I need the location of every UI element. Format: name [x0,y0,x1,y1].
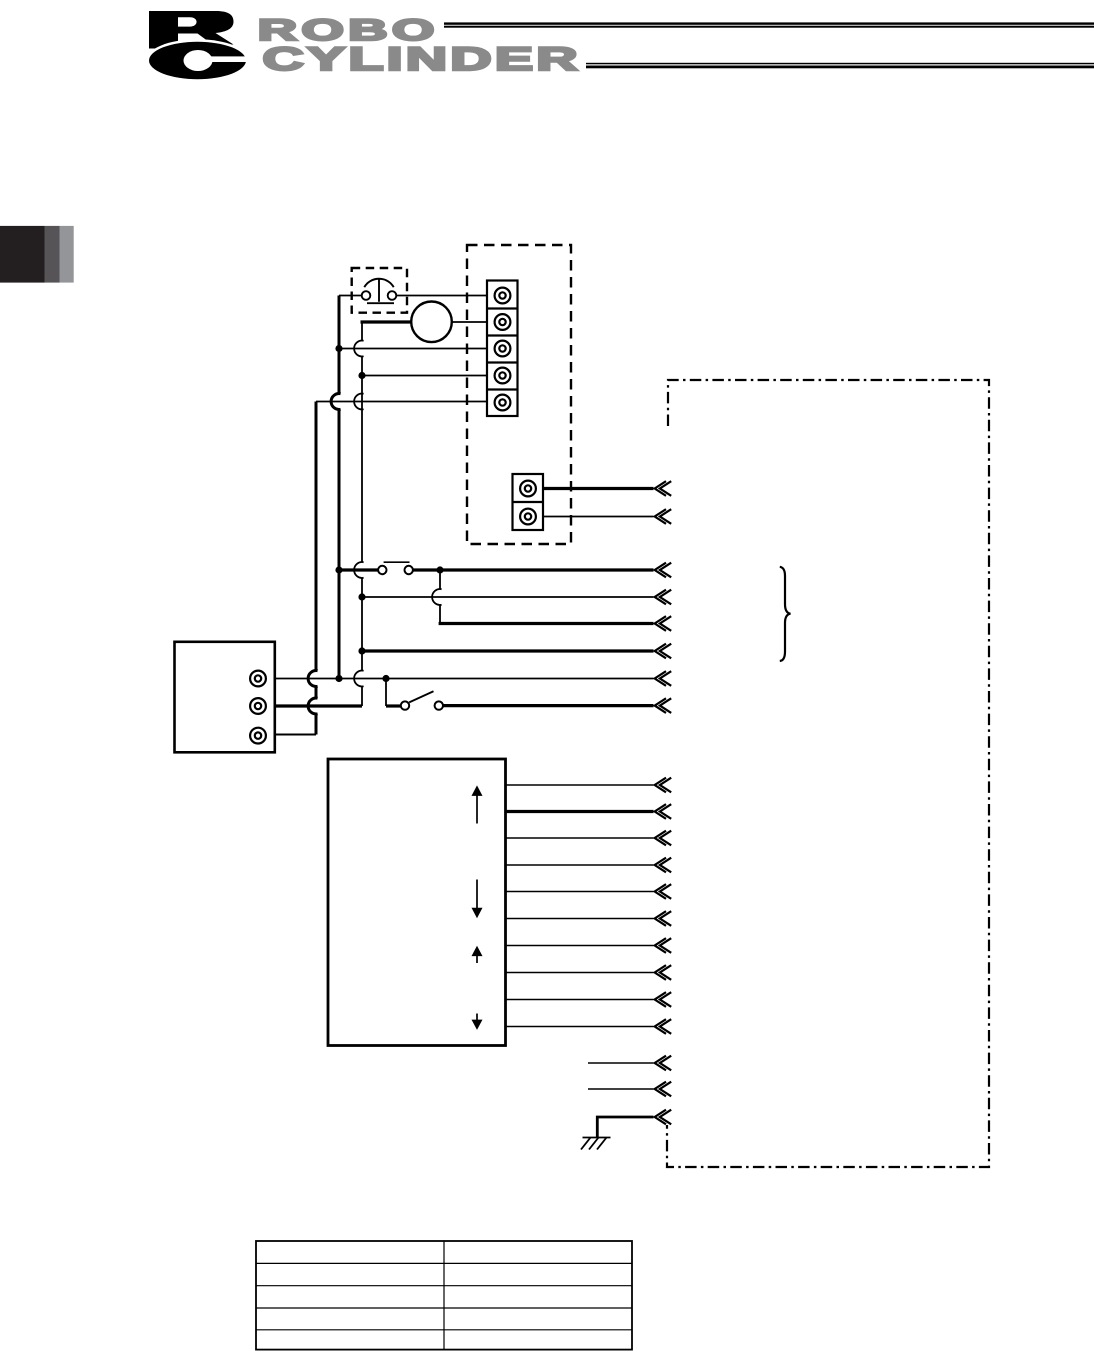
junction D [358,372,365,379]
header double rule bottom [586,63,1094,69]
hop bus362 row 570 [354,562,363,578]
relay box output wire 8 [506,965,672,980]
power supply box PS [175,642,275,753]
terminal block TB1 [487,281,518,417]
junction row1 left [335,566,342,573]
wire row4 to controller [362,644,671,659]
TB1 terminal 5 [495,395,511,411]
branch vertical 440 [439,570,441,624]
arrow down small [472,1014,483,1030]
brace group label [780,567,791,661]
spare wire 1 [588,1056,671,1071]
logo text CYLINDER [263,41,581,77]
wire row G power [275,704,362,707]
wire estop feed [339,295,487,297]
ground wire [597,1110,671,1138]
wire row3 to controller [439,616,672,631]
wire row F to controller [275,671,671,686]
PS terminal 1 [250,671,266,687]
wire row E to TB1-5 [316,401,487,403]
arrow up large [472,785,483,823]
header double rule top [444,22,1094,27]
switch S1 [401,691,443,710]
junction row1 right [436,566,443,573]
junction C [335,345,342,352]
relay box output wire 3 [506,831,672,846]
junction rowF switch branch [382,675,389,682]
hop bus339 row E [331,394,340,410]
ground symbol [581,1138,611,1150]
TB1 terminal 3 [495,341,511,357]
TB1 terminal 4 [495,368,511,384]
svg-text:CYLINDER: CYLINDER [263,41,581,77]
wire motor feed thick [361,320,488,323]
logo RC mark [146,11,250,82]
relay box output wire 2 [506,804,672,819]
chapter tab bar [0,226,74,283]
emergency stop pushbutton PB1 [362,279,397,304]
junction row4 [358,647,365,654]
arrow down large [472,880,483,919]
relay box output wire 1 [506,778,672,793]
TB2 terminal 2 [520,509,536,525]
terminal block TB2 [513,474,544,530]
vertical bus 316 [315,402,318,735]
relay box output wire 10 [506,1019,672,1034]
hop branch440 row2 [432,589,441,605]
hop bus362 row E [354,394,363,410]
TB1 terminal 1 [495,288,511,304]
wire row1 with pushbutton to controller [339,563,671,578]
relay box output wire 9 [506,992,672,1007]
hop bus316 row F [308,671,317,687]
motor M1 [411,302,452,343]
hop bus316 row G [308,698,317,714]
relay box output wire 5 [506,884,672,899]
PS terminal 2 [250,698,266,714]
wire TB2-2 to controller [543,509,671,524]
spare wire 2 [588,1082,671,1097]
relay box output wire 6 [506,911,672,926]
PS terminal 3 [250,728,266,744]
wire row2 to controller [362,590,671,605]
arrow up small [472,946,483,963]
relay box output wire 4 [506,858,672,873]
TB2 terminal 1 [520,481,536,497]
pushbutton PB2 contacts [378,562,413,574]
junction rowF bus339 [335,675,342,682]
hop bus362 row C [354,341,363,357]
vertical bus 339 [338,296,341,679]
wire row C to TB1-3 [339,348,487,350]
TB1 terminal 2 [495,314,511,330]
hop bus362 row F [354,671,363,687]
actuator enclosure dashed box [467,245,571,544]
junction row2 [358,593,365,600]
logo text ROBO [258,15,439,47]
wire row H power return [275,734,316,736]
wire switch to controller [443,698,671,713]
wire TB2-1 to controller [543,481,671,496]
vertical bus 362 [361,322,363,706]
relay circuit box [328,759,506,1046]
relay box output wire 7 [506,938,672,953]
parameter table [256,1241,632,1350]
emergency stop dashed box [352,268,407,313]
controller dash-dot enclosure [667,380,989,1167]
wire row D to TB1-4 [362,375,487,377]
switch branch wire [386,679,401,707]
